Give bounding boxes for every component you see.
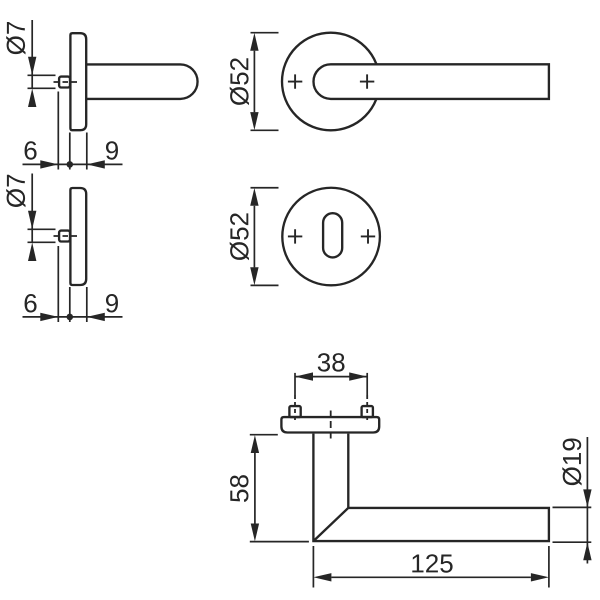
dimension 38: label — [318, 353, 345, 372]
dimension Ø19: label — [562, 438, 581, 485]
dimension 6 label (top) — [25, 141, 37, 160]
dimension 6/9 (top): extension lines — [58, 92, 87, 170]
center line through spindle (top) — [54, 81, 81, 83]
dimension Ø52 (middle): arrows — [250, 188, 258, 285]
dimension Ø7 (middle): label — [6, 175, 25, 208]
screw centerline left — [294, 373, 296, 395]
dimension Ø52 (top): extension ticks — [251, 33, 279, 131]
dimension 6/9 (top): arrows — [40, 160, 105, 168]
dimension Ø7 (top): dimension line — [31, 20, 33, 88]
dimension 125: arrows — [313, 573, 549, 581]
screw mark left (top circle) — [288, 74, 302, 88]
dimension Ø52 (top): label — [230, 58, 249, 105]
spindle nut side view (top) — [59, 77, 70, 88]
keyhole slot — [323, 213, 342, 257]
dimension Ø7 (middle): arrows — [28, 211, 36, 261]
dimension 6/9 (middle): dimension line — [23, 316, 123, 318]
lever top view outline — [313, 434, 549, 541]
dimension Ø52 (middle): dimension line — [253, 206, 255, 268]
dimension 6/9 (top): dimension line — [23, 163, 123, 165]
screw centerline right — [366, 373, 368, 395]
screw mark left (middle circle) — [288, 229, 302, 243]
dimension 6/9 (middle): junction dot — [67, 314, 74, 321]
dimension 125: extension lines — [313, 546, 549, 588]
dimension Ø19: arrows — [583, 489, 591, 560]
dimension Ø7 (top): arrows — [28, 57, 36, 107]
dimension Ø7 (top): label — [6, 22, 25, 55]
screw mark right (top circle) — [360, 74, 374, 88]
rose plate top view (bottom) — [281, 417, 379, 432]
dimension 38: dimension line — [295, 376, 367, 378]
dimension 38: arrows — [295, 372, 367, 380]
screw left (top view) — [289, 406, 300, 417]
dimension 6/9 (top): junction dot — [67, 161, 74, 168]
dimension Ø52 (middle): extension ticks — [251, 188, 279, 286]
dimension Ø52 (middle): label — [230, 213, 249, 260]
dimension Ø7 (top): extension lines — [28, 75, 56, 88]
dimension 58: label — [230, 475, 249, 502]
dimension 6 label (middle) — [25, 294, 37, 313]
dimension Ø19: extension lines — [553, 507, 592, 542]
lever side view — [86, 64, 197, 99]
dimension 9 label (middle) — [106, 294, 118, 313]
spindle tab side view (middle) — [59, 231, 70, 242]
dimension Ø7 (middle): extension lines — [28, 229, 56, 242]
dimension 6/9 (middle): arrows — [40, 313, 105, 321]
dimension 6/9 (middle): extension lines — [58, 246, 87, 322]
rose side view (top-left) — [70, 33, 86, 130]
dimension 9 label (top) — [106, 141, 118, 160]
dimension Ø52 (top): dimension line — [253, 51, 255, 113]
screw mark right (middle circle) — [361, 229, 375, 243]
dimension 125: label — [412, 554, 452, 573]
escutcheon side view (middle-left) — [70, 188, 86, 285]
rose front view circle (top-right) — [282, 33, 380, 131]
escutcheon front view circle (middle-right) — [282, 188, 380, 286]
dimension 58: dimension line — [254, 453, 256, 524]
dimension Ø19: dimension line — [586, 437, 588, 564]
dimension Ø52 (top): arrows — [250, 33, 258, 130]
center line through tab (middle) — [54, 235, 81, 237]
dimension Ø7 (middle): dimension line — [31, 174, 33, 243]
dimension 125: dimension line — [331, 576, 531, 578]
screw right (top view) — [362, 406, 373, 417]
plate centerline — [330, 411, 332, 442]
dimension 58: arrows — [251, 435, 259, 541]
dimension 58: extension lines — [250, 435, 309, 542]
lever front view — [314, 64, 549, 99]
